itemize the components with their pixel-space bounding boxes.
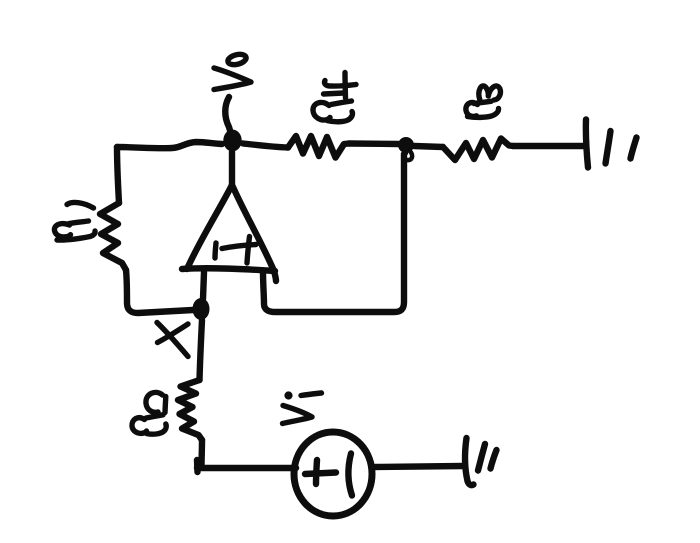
label Vo <box>214 53 251 90</box>
wire R3 to ground <box>513 143 585 149</box>
node X <box>193 298 210 320</box>
wire corner tick <box>194 460 201 472</box>
wire R4 to node A <box>349 140 398 147</box>
source V1 bar <box>348 454 352 496</box>
wire node X to R2 <box>200 320 203 380</box>
wire source to ground <box>372 466 463 467</box>
label R3 <box>466 86 501 117</box>
op-amp U1 <box>182 185 276 281</box>
wire minus input <box>203 272 204 299</box>
ground G2 <box>465 438 496 485</box>
resistor R4 <box>288 136 349 158</box>
label R4 <box>313 73 356 122</box>
wire plus input loop <box>263 154 404 312</box>
ground G1 <box>586 120 637 168</box>
source V1 <box>294 432 372 516</box>
wire left vertical <box>117 147 119 203</box>
wire Vo node to left corner <box>117 142 222 148</box>
wire node A to R3 <box>414 146 443 147</box>
wire Vo node to R4 <box>243 144 288 148</box>
wire to source V1 <box>197 465 296 471</box>
wire Vo lead <box>225 97 231 134</box>
label Vi <box>283 393 322 424</box>
resistor R2 <box>178 380 202 440</box>
source V1 plus sign <box>305 473 336 475</box>
label R1 <box>54 202 95 240</box>
wire R2 to corner <box>198 440 205 467</box>
label X <box>157 323 188 357</box>
resistor R3 <box>443 139 513 161</box>
wire R1 bottom to node X <box>126 270 193 313</box>
resistor R1 <box>100 203 126 270</box>
node Vo <box>223 130 241 152</box>
label R2 <box>132 392 166 434</box>
node A <box>398 137 414 153</box>
wire apex to Vo node <box>229 152 235 185</box>
